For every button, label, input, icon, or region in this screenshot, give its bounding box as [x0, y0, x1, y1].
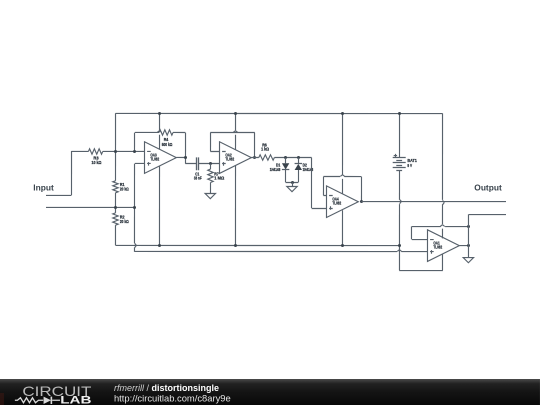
svg-text:9 V: 9 V: [407, 163, 412, 168]
svg-text:TL082: TL082: [332, 201, 341, 206]
svg-text:Output: Output: [474, 183, 502, 193]
svg-text:20 kΩ: 20 kΩ: [120, 219, 129, 224]
svg-text:1 kΩ: 1 kΩ: [261, 146, 269, 151]
svg-text:Input: Input: [33, 183, 54, 193]
svg-text:10 kΩ: 10 kΩ: [92, 160, 102, 165]
svg-text:LAB: LAB: [60, 394, 92, 405]
svg-text:33 nF: 33 nF: [194, 175, 202, 180]
svg-text:1 MΩ: 1 MΩ: [214, 176, 225, 181]
svg-text:BAT1: BAT1: [407, 158, 417, 163]
svg-text:500 kΩ: 500 kΩ: [162, 142, 173, 147]
svg-text:1N4148: 1N4148: [270, 167, 281, 172]
svg-text:20 kΩ: 20 kΩ: [120, 186, 129, 191]
svg-text:TL082: TL082: [433, 245, 442, 250]
svg-text:TL082: TL082: [225, 157, 234, 162]
svg-text:http://circuitlab.com/c8ary9e: http://circuitlab.com/c8ary9e: [114, 392, 231, 403]
svg-text:TL082: TL082: [150, 157, 159, 162]
